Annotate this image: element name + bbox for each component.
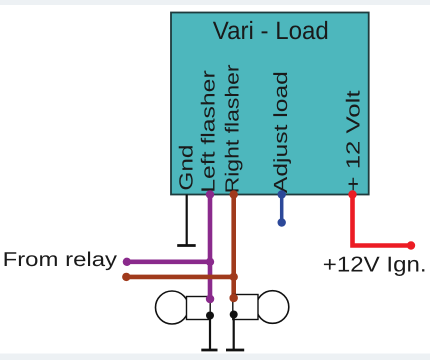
svg-text:Vari - Load: Vari - Load (213, 17, 329, 45)
svg-text:Adjust load: Adjust load (271, 71, 292, 193)
svg-text:Gnd: Gnd (177, 145, 198, 191)
svg-text:+ 12 Volt: + 12 Volt (344, 90, 365, 192)
svg-text:From relay: From relay (3, 249, 117, 271)
svg-text:+12V Ign.: +12V Ign. (323, 253, 427, 277)
svg-text:Left flasher: Left flasher (199, 69, 220, 192)
svg-text:Right flasher: Right flasher (223, 64, 244, 194)
